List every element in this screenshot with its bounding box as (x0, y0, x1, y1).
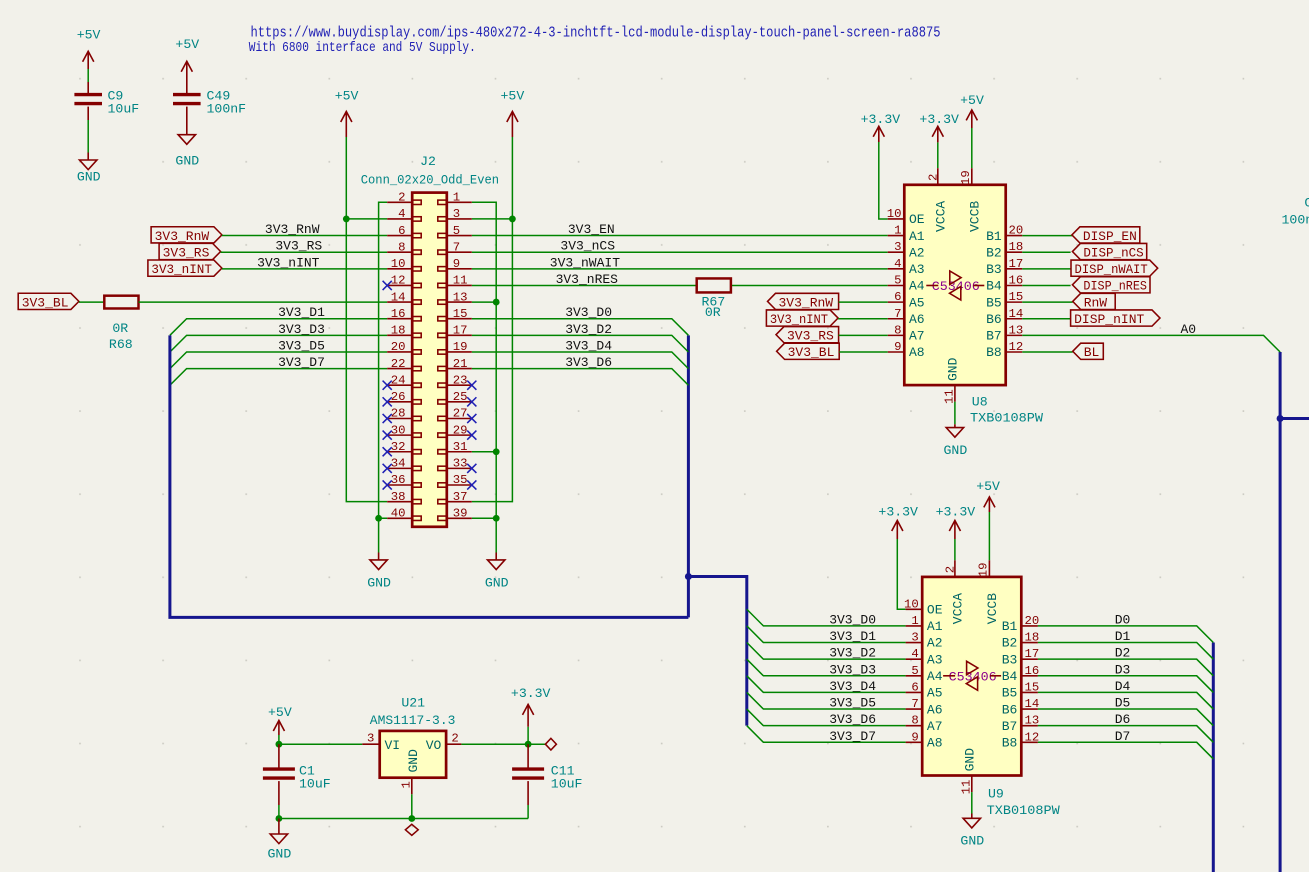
svg-text:4: 4 (398, 207, 405, 221)
svg-text:3V3_nINT: 3V3_nINT (257, 255, 320, 270)
wire +5V right rail down to pin 37 (472, 137, 513, 502)
svg-text:OE: OE (927, 602, 943, 617)
svg-text:17: 17 (453, 324, 468, 338)
svg-text:35: 35 (453, 473, 468, 487)
svg-text:U9: U9 (988, 787, 1004, 802)
svg-text:DISP_nWAIT: DISP_nWAIT (1075, 262, 1148, 277)
U9 pin 11 GND (960, 748, 978, 795)
svg-text:D4: D4 (1115, 679, 1131, 694)
svg-text:B7: B7 (986, 329, 1002, 344)
svg-text:17: 17 (1009, 257, 1024, 271)
svg-text:1: 1 (453, 191, 460, 205)
svg-text:TXB0108PW: TXB0108PW (970, 411, 1043, 426)
wire 3V3_BL to U8 A8 (839, 351, 888, 353)
svg-text:3V3_nINT: 3V3_nINT (151, 262, 212, 277)
U21 pin 1 (400, 778, 414, 795)
svg-text:8: 8 (911, 714, 918, 728)
wire D7 U9 B8 to bus (1038, 742, 1213, 759)
svg-text:29: 29 (453, 423, 468, 437)
svg-text:B3: B3 (986, 262, 1002, 277)
svg-text:14: 14 (1009, 307, 1024, 321)
svg-text:A5: A5 (927, 686, 943, 701)
J2 pin 13 (438, 290, 472, 304)
U8 pin 2 VCCA (926, 168, 948, 232)
junction pin13 (493, 299, 500, 306)
svg-text:3V3_nWAIT: 3V3_nWAIT (550, 255, 620, 270)
J2 pin 32 (383, 440, 422, 456)
svg-text:C: C (1304, 195, 1309, 210)
svg-text:3: 3 (367, 732, 374, 746)
J2 pin 37 (438, 490, 472, 504)
svg-text:100n: 100n (1282, 213, 1309, 228)
J2 pin 29 (438, 423, 477, 439)
svg-text:D3: D3 (1115, 662, 1131, 677)
junction +5V/pin3 (509, 216, 516, 223)
svg-text:7: 7 (911, 697, 918, 711)
svg-text:9: 9 (453, 257, 460, 271)
svg-text:2: 2 (398, 191, 405, 205)
svg-text:D1: D1 (1115, 629, 1131, 644)
wire 3V3_RnW to pin6 (222, 235, 387, 237)
svg-text:U21: U21 (401, 696, 425, 711)
capacitor C1 pins (278, 744, 280, 769)
U8 pin 5 A4 (888, 273, 925, 293)
svg-text:+5V: +5V (175, 37, 199, 52)
wire U8 B5 to RnW (1022, 301, 1072, 303)
svg-text:3V3_D5: 3V3_D5 (829, 696, 876, 711)
svg-text:B5: B5 (1002, 686, 1018, 701)
svg-text:https://www.buydisplay.com/ips: https://www.buydisplay.com/ips-480x272-4… (251, 25, 941, 42)
ground stem C9 (87, 153, 89, 161)
U9 pin 20 B1 (1002, 614, 1040, 634)
svg-text:A3: A3 (909, 262, 925, 277)
svg-text:3V3_RS: 3V3_RS (787, 329, 834, 344)
svg-text:B5: B5 (986, 295, 1002, 310)
wire U8 B1 to DISP_EN (1022, 235, 1072, 237)
svg-text:+5V: +5V (268, 705, 292, 720)
svg-text:3V3_D5: 3V3_D5 (278, 338, 325, 353)
svg-text:27: 27 (453, 407, 468, 421)
wire 3V3_D0 bus to U9 A1 (747, 609, 906, 626)
svg-text:A6: A6 (927, 702, 943, 717)
svg-text:GND: GND (77, 169, 101, 184)
svg-text:DISP_nRES: DISP_nRES (1083, 279, 1147, 294)
svg-text:6: 6 (894, 290, 901, 304)
svg-text:A7: A7 (909, 329, 925, 344)
J2 pin 20 (387, 340, 421, 354)
U9 pin 10 OE (904, 597, 943, 617)
svg-text:A5: A5 (909, 295, 925, 310)
svg-text:12: 12 (1025, 730, 1040, 744)
U8 pin 10 OE (887, 207, 925, 227)
wire +5V to VI and C1 (278, 735, 280, 744)
svg-text:10: 10 (391, 257, 406, 271)
svg-text:16: 16 (1025, 664, 1040, 678)
capacitor C9 10uF (74, 88, 139, 116)
U8 pin 12 B8 (986, 340, 1023, 360)
svg-text:A0: A0 (1181, 322, 1197, 337)
wire 3V3_nCS pin7 to U8 A2 (472, 251, 888, 253)
wire VO to +3.3V and C11 (461, 743, 545, 745)
svg-text:DISP_nCS: DISP_nCS (1083, 245, 1143, 260)
junction C1/GND (276, 815, 283, 822)
svg-text:1: 1 (911, 614, 918, 628)
svg-text:3V3_D3: 3V3_D3 (278, 322, 325, 337)
svg-text:+5V: +5V (335, 88, 359, 103)
op-amp U9 TXB0108PW body (922, 577, 1021, 776)
svg-text:10: 10 (904, 597, 919, 611)
ground symbol below J2 left (367, 560, 391, 590)
partial capacitor top right (1282, 195, 1309, 227)
svg-text:38: 38 (391, 490, 406, 504)
wire GND left rail pin2 to pin40 (379, 202, 388, 518)
power symbol +3.3V above U8 OE (861, 112, 901, 142)
svg-text:8: 8 (894, 323, 901, 337)
svg-text:6: 6 (398, 224, 405, 238)
svg-text:BL: BL (1084, 345, 1100, 360)
wire 3V3_RnW to U8 A5 (839, 301, 888, 303)
power symbol +5V above C49 (175, 37, 199, 80)
svg-text:B6: B6 (986, 312, 1002, 327)
global label DISP_nINT (1071, 310, 1160, 327)
U9 pin 17 B3 (1002, 647, 1040, 667)
wire 3V3_nINT to pin10 (222, 268, 387, 270)
svg-text:2: 2 (943, 566, 957, 573)
svg-text:A8: A8 (927, 736, 943, 751)
svg-text:3V3_nRES: 3V3_nRES (556, 272, 619, 287)
svg-text:VCCA: VCCA (951, 593, 966, 624)
svg-text:3V3_D7: 3V3_D7 (829, 729, 876, 744)
J2 pin 10 (387, 257, 421, 271)
svg-text:GND: GND (944, 443, 968, 458)
svg-text:A2: A2 (909, 245, 925, 260)
svg-text:10: 10 (887, 207, 902, 221)
U9 pin 1 A1 (906, 614, 943, 634)
op-amp U8 TXB0108PW body (904, 185, 1005, 385)
svg-text:GND: GND (962, 748, 977, 772)
J2 pin 36 (383, 473, 422, 489)
ground symbol below J2 right (485, 560, 509, 590)
U8 pin 11 GND (943, 357, 961, 404)
U8 pin 3 A2 (888, 240, 925, 260)
U8 pin 6 A5 (888, 290, 925, 310)
wire 3V3_D0 pin to bus (472, 319, 689, 336)
svg-text:GND: GND (175, 153, 199, 168)
svg-text:B7: B7 (1002, 719, 1018, 734)
svg-text:10uF: 10uF (551, 777, 583, 792)
U9 pin 6 A5 (906, 680, 943, 700)
svg-text:40: 40 (391, 506, 406, 520)
power symbol +5V above U8 VCCB (960, 93, 984, 128)
J2 pin 22 (387, 357, 421, 371)
svg-text:21: 21 (453, 357, 468, 371)
U9 pin 8 A7 (906, 714, 943, 734)
J2 pin 4 (387, 207, 421, 221)
wire U8 B6 to DISP_nINT (1022, 318, 1070, 320)
svg-text:3V3_RnW: 3V3_RnW (779, 295, 834, 310)
U9 pin 12 B8 (1002, 730, 1040, 750)
U9 pin 4 A3 (906, 647, 943, 667)
wire D1 U9 B2 to bus (1038, 643, 1213, 660)
J2 pin 28 (383, 407, 422, 423)
J2 pin 34 (383, 457, 422, 473)
svg-text:OE: OE (909, 212, 925, 227)
svg-text:20: 20 (391, 340, 406, 354)
J2 pin 21 (438, 357, 472, 371)
svg-text:+3.3V: +3.3V (861, 112, 901, 127)
power symbol +3.3V above U8 VCCA (919, 112, 959, 142)
resistor R68 (104, 296, 138, 352)
bus U9 output vertical (1212, 643, 1215, 872)
wire 3V3_nINT to U8 A6 (838, 318, 888, 320)
svg-text:GND: GND (406, 749, 421, 773)
svg-text:31: 31 (453, 440, 468, 454)
svg-text:A4: A4 (927, 669, 943, 684)
bus junction right (1277, 415, 1284, 422)
bus right A0 vertical (1279, 352, 1282, 872)
svg-text:3V3_D1: 3V3_D1 (278, 305, 325, 320)
bus center vertical from J2 right data (687, 335, 690, 617)
junction pin40/GND (375, 515, 382, 522)
svg-text:24: 24 (391, 373, 406, 387)
svg-text:B4: B4 (1002, 669, 1018, 684)
U8 pin 17 B3 (986, 257, 1023, 277)
J2 pin 8 (387, 240, 421, 254)
wire 3V3_D1 from pin to bus (170, 319, 387, 336)
capacitor C49 pins (186, 80, 188, 95)
svg-text:18: 18 (391, 324, 406, 338)
svg-text:14: 14 (391, 290, 406, 304)
wire pin13 to GND rail (472, 301, 496, 303)
J2 pin 1 (438, 191, 472, 205)
svg-text:B2: B2 (986, 245, 1002, 260)
svg-text:VCCA: VCCA (934, 201, 949, 232)
wire 3V3_RS to pin8 (221, 251, 388, 253)
wire GND left rail down (378, 518, 380, 552)
J2 pin 26 (383, 390, 422, 406)
U9 pin 16 B4 (1002, 664, 1040, 684)
svg-text:3V3_BL: 3V3_BL (22, 295, 69, 310)
svg-text:4: 4 (911, 647, 918, 661)
wire 3V3_D2 pin to bus (472, 335, 689, 352)
global label BL (1073, 343, 1104, 360)
junction pin31 (493, 448, 500, 455)
wire 3V3_D7 from pin to bus (170, 369, 387, 386)
svg-text:3V3_D4: 3V3_D4 (829, 679, 876, 694)
svg-text:TXB0108PW: TXB0108PW (987, 803, 1060, 818)
wire 3V3_RS to U8 A7 (839, 334, 888, 336)
svg-text:36: 36 (391, 473, 406, 487)
U9 pin 15 B5 (1002, 680, 1040, 700)
wire +5V left rail down to pin 38 (346, 137, 387, 502)
wire +3.3V down to VO rail (527, 727, 529, 744)
J2 pin 31 (438, 440, 472, 454)
J2 pin 18 (387, 324, 421, 338)
svg-text:GND: GND (960, 833, 984, 848)
global label 3V3_BL left (18, 293, 79, 310)
wire C9 top (87, 69, 89, 82)
svg-text:15: 15 (1025, 680, 1040, 694)
U9 pin 19 VCCB (976, 560, 1000, 624)
bus left vertical and bottom horizontal (170, 335, 689, 617)
svg-text:10uF: 10uF (108, 101, 140, 116)
power symbol +3.3V above U9 OE (878, 505, 918, 540)
U9 pin 14 B6 (1002, 697, 1040, 717)
J2 pin 27 (438, 407, 477, 423)
U9 pin 13 B7 (1002, 714, 1040, 734)
global label 3V3_RnW left (151, 227, 222, 244)
J2 pin 14 (387, 290, 421, 304)
global label 3V3_RS left (159, 243, 221, 260)
svg-text:3V3_D7: 3V3_D7 (278, 355, 325, 370)
svg-text:20: 20 (1009, 224, 1024, 238)
U9 pin 9 A8 (906, 730, 943, 750)
svg-text:D6: D6 (1115, 712, 1131, 727)
svg-text:D7: D7 (1115, 729, 1131, 744)
J2 pin 35 (438, 473, 477, 489)
svg-text:+3.3V: +3.3V (511, 686, 551, 701)
U9 pin 2 VCCA (943, 560, 965, 624)
svg-text:25: 25 (453, 390, 468, 404)
svg-text:2: 2 (926, 174, 940, 181)
svg-text:6: 6 (911, 680, 918, 694)
svg-text:16: 16 (1009, 273, 1024, 287)
svg-text:3: 3 (911, 631, 918, 645)
wire 3V3_D6 bus to U9 A7 (747, 709, 906, 726)
wire 3V3_EN pin5 to U8 A1 (472, 235, 888, 237)
ground symbol below U8 (944, 428, 968, 458)
wire 3V3_D6 pin to bus (472, 369, 689, 386)
global label 3V3_BL at U8 (777, 343, 840, 360)
svg-text:+3.3V: +3.3V (936, 505, 976, 520)
svg-text:33: 33 (453, 457, 468, 471)
junction +5V/C1/VI (276, 741, 283, 748)
svg-text:10uF: 10uF (299, 777, 331, 792)
svg-text:11: 11 (453, 274, 468, 288)
J2 pin 2 (387, 191, 421, 205)
svg-text:9: 9 (911, 730, 918, 744)
svg-text:B6: B6 (1002, 702, 1018, 717)
U8 pin 15 B5 (986, 290, 1023, 310)
regulator U21 AMS1117-3.3 body (370, 696, 456, 778)
wire D6 U9 B7 to bus (1038, 726, 1213, 743)
unconnected flag below U21 pin1 (405, 824, 418, 835)
svg-text:3V3_D6: 3V3_D6 (565, 355, 612, 370)
svg-text:0R: 0R (705, 305, 721, 320)
svg-text:3V3_nINT: 3V3_nINT (770, 312, 828, 327)
svg-text:1: 1 (894, 224, 901, 238)
wire +3.3V to U9 OE (897, 539, 905, 609)
U8 pin 13 B7 (986, 323, 1023, 343)
wire GND right rail down (495, 518, 497, 552)
wire 3V3_D4 pin to bus (472, 352, 689, 369)
svg-text:15: 15 (1009, 290, 1024, 304)
svg-text:J2: J2 (420, 154, 436, 169)
U8 pin 1 A1 (888, 224, 925, 244)
U8 pin 19 VCCB (959, 168, 983, 232)
svg-text:+3.3V: +3.3V (919, 112, 959, 127)
wire C9 bottom (87, 120, 89, 153)
svg-text:Conn_02x20_Odd_Even: Conn_02x20_Odd_Even (361, 173, 499, 188)
svg-text:18: 18 (1009, 240, 1024, 254)
svg-text:GND: GND (268, 847, 292, 862)
wire pin39 to GND rail (472, 517, 496, 519)
wire U8 B2 to DISP_nCS (1022, 251, 1070, 253)
ground stem J2 left (378, 553, 380, 560)
svg-text:B1: B1 (986, 229, 1002, 244)
svg-text:3V3_D4: 3V3_D4 (565, 338, 612, 353)
svg-text:18: 18 (1025, 631, 1040, 645)
wire D3 U9 B4 to bus (1038, 676, 1213, 693)
J2 pin 5 (438, 224, 472, 238)
power symbol +5V above C9 (77, 28, 101, 70)
bus right horizontal branch (1280, 417, 1309, 420)
svg-text:AMS1117-3.3: AMS1117-3.3 (370, 713, 456, 728)
svg-text:3: 3 (894, 240, 901, 254)
J2 pin 7 (438, 240, 472, 254)
svg-text:3V3_RnW: 3V3_RnW (265, 222, 320, 237)
svg-text:15: 15 (453, 307, 468, 321)
svg-text:0R: 0R (112, 321, 128, 336)
unconnected flag right of +3.3V (545, 738, 556, 750)
wire C1 bottom (278, 805, 280, 819)
wire D0 U9 B1 to bus (1038, 626, 1213, 643)
wire +3.3V to U8 OE (879, 142, 888, 219)
junction VO/+3.3V/C11 (525, 741, 532, 748)
U9 pin 5 A4 (906, 664, 943, 684)
J2 pin 3 (438, 207, 472, 221)
wire U8 B3 to DISP_nWAIT (1022, 268, 1070, 270)
J2 pin 23 (438, 373, 477, 389)
svg-text:3: 3 (453, 207, 460, 221)
svg-text:9: 9 (894, 340, 901, 354)
svg-text:2: 2 (451, 732, 458, 746)
U8 pin 4 A3 (888, 257, 925, 277)
svg-text:8: 8 (398, 240, 405, 254)
U9 pin 7 A6 (906, 697, 943, 717)
capacitor C11 pins (527, 744, 529, 769)
J2 pin 6 (387, 224, 421, 238)
svg-text:B1: B1 (1002, 619, 1018, 634)
U8 pin 7 A6 (888, 307, 925, 327)
wire +5V to U8 VCCB (971, 128, 973, 168)
wire 3V3_D3 from pin to bus (170, 335, 387, 352)
U8 pin 8 A7 (888, 323, 925, 343)
svg-text:13: 13 (1009, 323, 1024, 337)
svg-text:D0: D0 (1115, 612, 1131, 627)
wire 3V3_D5 from pin to bus (170, 352, 387, 369)
svg-text:20: 20 (1025, 614, 1040, 628)
U21 pin 3 VI (362, 732, 400, 753)
power symbol +3.3V above U9 VCCA (936, 505, 976, 540)
bus branch to U9 (688, 577, 746, 726)
svg-text:4: 4 (894, 257, 901, 271)
ground symbol below U9 (960, 818, 984, 848)
wire U8 B8 to BL (1022, 351, 1072, 353)
U9 pin 3 A2 (906, 631, 943, 651)
wire 3V3_nWAIT pin9 to U8 A3 (472, 268, 888, 270)
capacitor C1 10uF (263, 764, 331, 792)
J2 pin 33 (438, 457, 477, 473)
svg-text:39: 39 (453, 506, 468, 520)
U8 pin 20 B1 (986, 224, 1023, 244)
ground stem U9 (971, 814, 973, 819)
svg-text:22: 22 (391, 357, 406, 371)
wire +3.3V to U8 VCCA (937, 142, 939, 168)
bus junction center (685, 573, 692, 580)
svg-text:GND: GND (946, 357, 961, 381)
svg-text:GND: GND (485, 575, 509, 590)
